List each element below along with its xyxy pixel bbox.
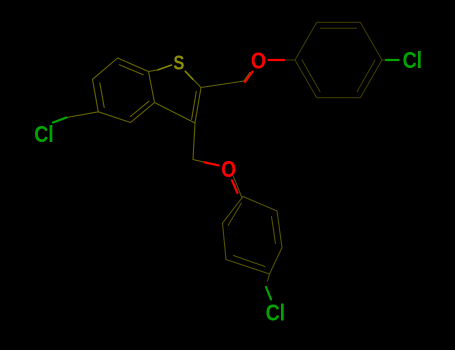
svg-text:Cl: Cl bbox=[403, 47, 423, 73]
svg-text:O: O bbox=[251, 48, 266, 74]
svg-text:S: S bbox=[173, 53, 184, 75]
svg-text:Cl: Cl bbox=[34, 121, 54, 147]
svg-text:Cl: Cl bbox=[266, 300, 286, 326]
svg-text:O: O bbox=[221, 156, 236, 182]
